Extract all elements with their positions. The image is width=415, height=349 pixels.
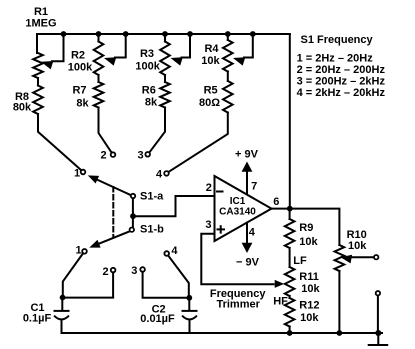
svg-text:10k: 10k — [348, 240, 367, 252]
wire switch common to op-amp pin 2 — [133, 196, 214, 216]
svg-text:0.01µF: 0.01µF — [140, 313, 175, 325]
svg-text:+ 9V: + 9V — [235, 149, 259, 161]
junction dot R10 to ground bus — [337, 330, 343, 336]
svg-text:IC1: IC1 — [230, 196, 246, 207]
resistor R6 8k — [142, 75, 170, 109]
switch S1-a contact 4 — [156, 169, 169, 181]
switch S1-a contact 3 — [137, 150, 150, 162]
junction dot output node — [287, 206, 293, 212]
junction dot above C1 — [60, 295, 66, 301]
resistor R9 10k — [285, 219, 319, 248]
svg-text:R12: R12 — [299, 300, 319, 312]
junction dot R4 wiper on bus — [250, 31, 256, 37]
svg-text:10k: 10k — [201, 55, 220, 67]
svg-text:80k: 80k — [13, 102, 32, 114]
wire S1-b contact 4 to C2 junction — [168, 256, 189, 299]
svg-text:6: 6 — [273, 196, 279, 208]
svg-text:10k: 10k — [299, 236, 318, 248]
switch S1-b wiper arm — [89, 224, 164, 248]
potentiometer R4 10k — [201, 34, 253, 72]
ground symbol — [369, 333, 388, 345]
svg-text:S1-b: S1-b — [140, 224, 164, 236]
power -9V pin 4 arrow — [236, 223, 260, 269]
dashed mechanical link S1 — [112, 187, 114, 236]
wire R6 bottom to switch contact 3 — [149, 108, 165, 153]
switch S1-a wiper arm — [88, 175, 164, 202]
junction dot above C2 — [186, 295, 192, 301]
junction dot R4 top on bus — [225, 31, 231, 37]
svg-text:100k: 100k — [135, 61, 160, 73]
wire R7 bottom to switch contact 2 — [99, 108, 112, 153]
svg-text:100k: 100k — [68, 62, 93, 74]
svg-text:7: 7 — [251, 181, 257, 193]
svg-text:2 = 20Hz – 200Hz: 2 = 20Hz – 200Hz — [297, 64, 386, 76]
svg-text:R5: R5 — [204, 85, 218, 97]
output terminal from R10 wiper — [374, 255, 378, 259]
resistor R5 80ohm — [199, 72, 233, 113]
wire S1-b contact 1 to C1 — [63, 254, 83, 298]
junction dot switch common node — [130, 213, 136, 219]
svg-text:4: 4 — [171, 245, 178, 257]
svg-text:2: 2 — [103, 266, 109, 278]
wire R10 bottom to ground bus — [338, 271, 340, 333]
svg-text:CA3140: CA3140 — [219, 207, 256, 218]
resistor R11 10k — [285, 267, 321, 296]
potentiometer R1 1MEG — [25, 6, 63, 78]
junction dot R3 wiper on bus — [187, 31, 193, 37]
switch S1-b contact 4 — [164, 245, 178, 257]
svg-text:R4: R4 — [204, 43, 219, 55]
svg-text:R9: R9 — [299, 222, 313, 234]
svg-text:− 9V: − 9V — [236, 257, 260, 269]
wire S1-b contact 2 drop — [112, 272, 114, 297]
wire output node to R9 — [289, 209, 291, 219]
svg-text:1 = 2Hz – 20Hz: 1 = 2Hz – 20Hz — [297, 53, 374, 65]
svg-text:1: 1 — [75, 245, 81, 257]
svg-text:R7: R7 — [72, 85, 86, 97]
output terminal ground side — [376, 291, 380, 295]
junction dot terminal on ground bus — [375, 330, 381, 336]
capacitor C2 0.01uF — [140, 298, 196, 333]
wire op-amp output pin 6 to R10 top — [272, 209, 340, 245]
svg-text:Trimmer: Trimmer — [216, 299, 260, 311]
power +9V pin 7 arrow — [235, 149, 259, 195]
resistor R8 80k — [13, 78, 43, 114]
potentiometer R10 10k — [335, 229, 374, 271]
svg-text:R1: R1 — [34, 6, 48, 18]
capacitor C1 0.1uF — [23, 298, 69, 333]
wire op-amp pin 3 to frequency trimmer — [201, 234, 273, 285]
junction dot R12 to ground bus — [287, 330, 293, 336]
svg-text:2: 2 — [100, 150, 106, 162]
junction dot R1 wiper on bus — [61, 31, 67, 37]
svg-text:R11: R11 — [299, 271, 319, 283]
svg-text:1MEG: 1MEG — [25, 18, 56, 30]
svg-text:8k: 8k — [145, 97, 158, 109]
op-amp U1 IC1 CA3140 — [205, 176, 279, 241]
wire top feedback bus — [37, 33, 290, 35]
wire R8 bottom to switch contact 1 — [38, 114, 81, 170]
svg-text:4: 4 — [249, 227, 256, 239]
resistor R12 10k — [285, 296, 320, 333]
switch S1-b contact 2 — [103, 266, 116, 278]
wire right feedback drop from bus to pin 6 node — [289, 34, 291, 209]
S1 frequency legend — [297, 34, 386, 99]
svg-text:3: 3 — [205, 219, 211, 231]
frequency trimmer wiper arrow into R11 — [210, 280, 284, 311]
junction dot R3 top on bus — [162, 31, 168, 37]
svg-text:S1 Frequency: S1 Frequency — [301, 34, 374, 46]
resistor R7 8k — [72, 75, 103, 110]
svg-text:4 = 2kHz – 20kHz: 4 = 2kHz – 20kHz — [297, 87, 386, 99]
svg-text:R2: R2 — [71, 50, 85, 62]
potentiometer R2 100k — [68, 34, 126, 75]
wire R9 to R11, node LF — [290, 248, 307, 267]
junction dot R2 top on bus — [96, 31, 102, 37]
wire S1-a common to S1-b common — [132, 198, 134, 227]
svg-text:80Ω: 80Ω — [199, 97, 220, 109]
wire bottom ground bus — [62, 332, 383, 334]
svg-text:10k: 10k — [301, 283, 320, 295]
switch S1-b contact 1 — [75, 245, 86, 257]
svg-text:0.1µF: 0.1µF — [23, 313, 52, 325]
svg-text:S1-a: S1-a — [140, 191, 164, 203]
svg-text:3: 3 — [131, 265, 137, 277]
switch S1-a contact 2 — [100, 150, 115, 162]
svg-text:LF: LF — [293, 255, 307, 267]
svg-text:3: 3 — [137, 150, 143, 162]
svg-text:4: 4 — [156, 169, 163, 181]
svg-text:1: 1 — [74, 168, 80, 180]
svg-text:R6: R6 — [142, 85, 156, 97]
wire R5 bottom to switch contact 4 — [168, 113, 227, 173]
wire C1 junction horizontal — [63, 297, 114, 299]
wire S1-b contact 3 to C2 junction — [143, 272, 190, 298]
svg-text:3 = 200Hz – 2kHz: 3 = 200Hz – 2kHz — [297, 76, 386, 88]
switch S1-a contact 1 — [74, 168, 85, 180]
wire ground terminal drop — [377, 296, 379, 333]
svg-text:8k: 8k — [76, 98, 89, 110]
wire bus left drop to R1 top — [36, 34, 38, 53]
junction dot R2 wiper on bus — [123, 31, 129, 37]
svg-text:R3: R3 — [140, 48, 154, 60]
potentiometer R3 100k — [135, 34, 190, 75]
switch S1-b contact 3 — [131, 265, 145, 277]
svg-text:10k: 10k — [300, 312, 319, 324]
svg-text:2: 2 — [206, 182, 212, 194]
